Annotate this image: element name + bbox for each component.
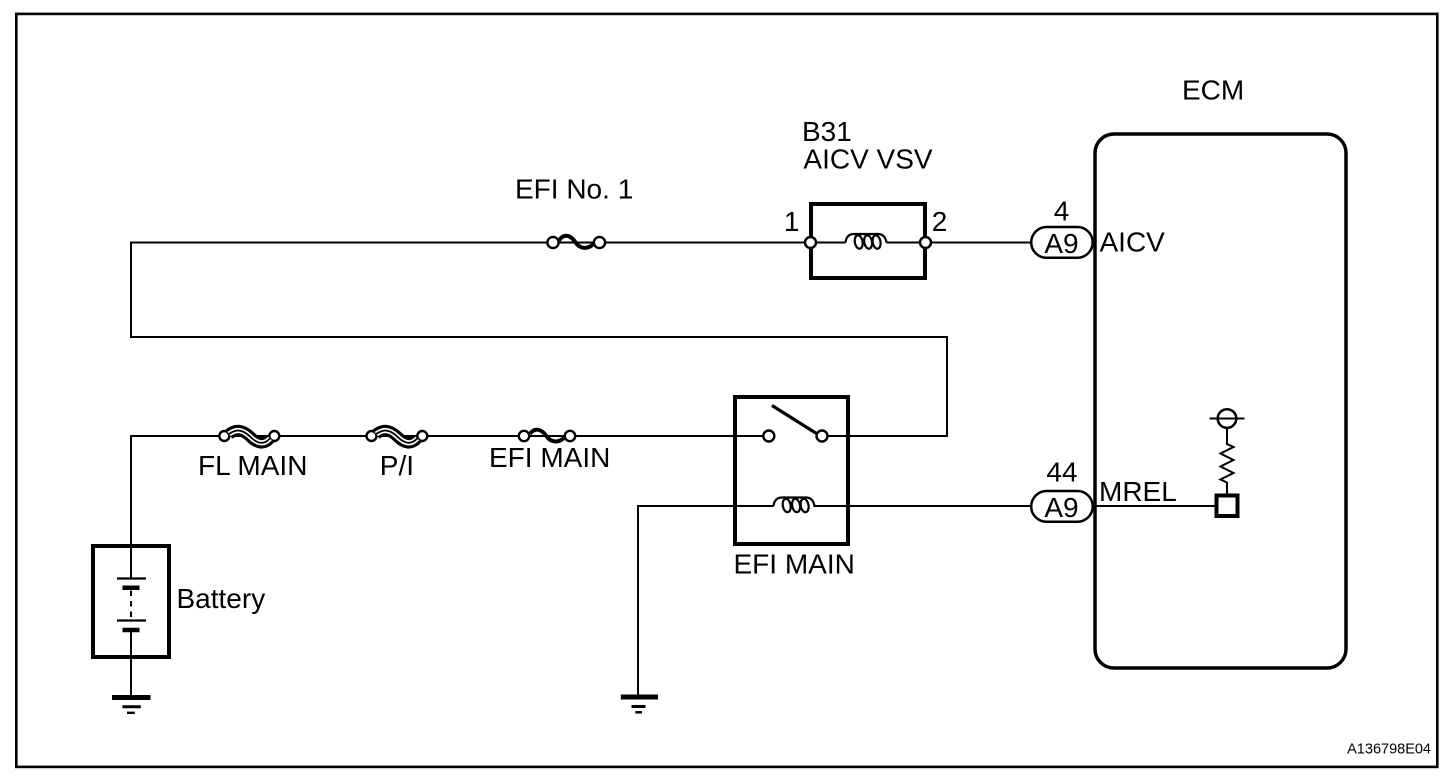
svg-text:A136798E04: A136798E04 (1347, 742, 1431, 758)
fuse EFI MAIN (519, 431, 529, 441)
battery cell plates (117, 577, 146, 579)
svg-text:EFI No. 1: EFI No. 1 (515, 174, 633, 205)
ground under relay coil (621, 695, 658, 700)
relay switch contact right (817, 431, 828, 442)
VSV pin 1 (805, 237, 816, 248)
svg-text:Battery: Battery (177, 583, 266, 614)
svg-text:AICV: AICV (1100, 227, 1166, 258)
VSV box B31 (811, 204, 925, 278)
internal driver square (1217, 496, 1238, 517)
relay box EFI MAIN (735, 397, 848, 544)
svg-text:44: 44 (1046, 457, 1077, 488)
svg-text:P/I: P/I (380, 450, 414, 481)
battery box (93, 546, 169, 657)
wire from relay coil right to MREL connector (814, 505, 1032, 507)
wire from VSV pin 2 to ECM AICV connector (887, 242, 1032, 244)
svg-text:B31: B31 (802, 116, 852, 147)
wire from relay coil left to ground (638, 506, 774, 696)
battery bottom wire (130, 630, 132, 696)
svg-text:AICV VSV: AICV VSV (803, 144, 932, 175)
internal power node circle (1226, 427, 1228, 445)
svg-text:A9: A9 (1044, 492, 1078, 523)
wire from relay switch output up and over to EFI No.1 fuse feed (131, 243, 947, 437)
ECM box U1 (1095, 134, 1346, 668)
svg-text:EFI MAIN: EFI MAIN (734, 549, 855, 580)
relay switch blade (772, 406, 817, 434)
svg-text:1: 1 (784, 206, 800, 237)
VSV pin 2 (920, 237, 931, 248)
fusible link FL MAIN (219, 431, 229, 441)
svg-text:4: 4 (1054, 196, 1070, 227)
relay coil (774, 498, 815, 507)
connector A9 pin 44 (MREL) (1031, 491, 1093, 522)
wire MREL inside ECM (1094, 505, 1216, 507)
fusible link P/I (367, 431, 377, 441)
fuse EFI No. 1 (547, 237, 558, 248)
svg-text:2: 2 (932, 206, 948, 237)
svg-text:ECM: ECM (1182, 75, 1244, 106)
svg-text:EFI MAIN: EFI MAIN (489, 442, 610, 473)
ground under battery (112, 695, 151, 700)
VSV coil L1 (846, 234, 887, 243)
connector A9 pin 4 (AICV) (1031, 227, 1093, 258)
svg-text:FL MAIN: FL MAIN (198, 450, 307, 481)
svg-text:MREL: MREL (1099, 476, 1177, 507)
wire from battery through FL MAIN, P/I, EFI MAIN fuse to relay switch (131, 436, 763, 579)
relay switch contact left (763, 431, 774, 442)
internal resistor (1221, 444, 1234, 494)
svg-text:A9: A9 (1044, 228, 1078, 259)
